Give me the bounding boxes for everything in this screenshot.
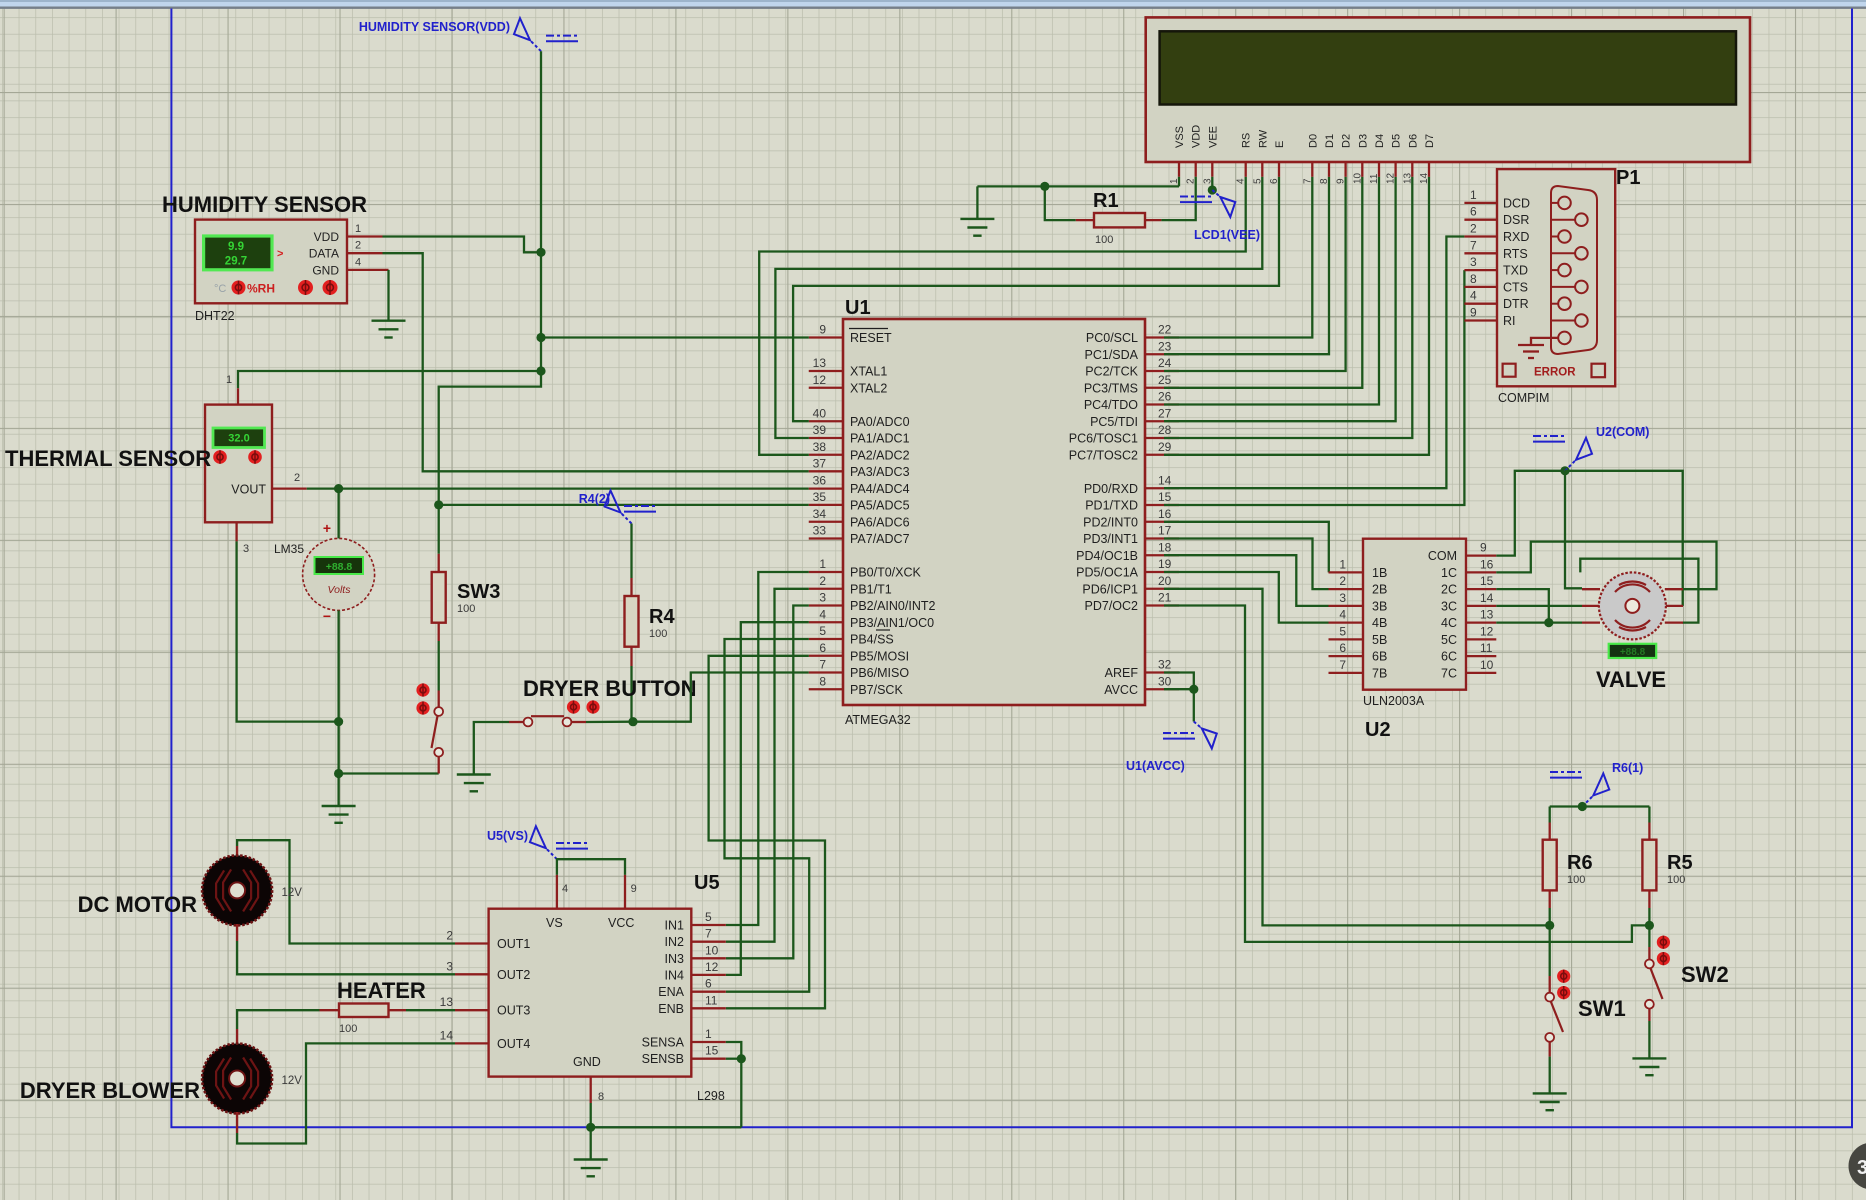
U5 right pin names: [642, 919, 685, 1067]
svg-text:12: 12: [1386, 172, 1397, 184]
wire AREF to AVCC node: [1164, 673, 1194, 690]
DHT22 pin stub DATA: [347, 252, 383, 254]
wire U2 2C jog: [1496, 589, 1549, 623]
svg-text:VCC: VCC: [608, 916, 634, 930]
wire PA5 row: [439, 504, 809, 506]
wire R5 top: [1648, 807, 1650, 823]
svg-text:R5: R5: [1667, 852, 1693, 874]
svg-text:100: 100: [339, 1023, 357, 1035]
U2 right pin numbers: [1480, 541, 1494, 672]
svg-text:18: 18: [1158, 540, 1172, 554]
button knob 1: [567, 700, 580, 713]
button knob 2: [586, 700, 599, 713]
R4 top stub: [630, 578, 632, 596]
U1 right pin numbers: [1158, 323, 1172, 689]
svg-text:6: 6: [705, 977, 712, 991]
svg-text:15: 15: [1158, 490, 1172, 504]
svg-text:8: 8: [598, 1091, 604, 1103]
svg-text:7: 7: [819, 658, 826, 672]
resistor SW3: [432, 572, 446, 623]
button left contact: [524, 718, 533, 727]
svg-text:9: 9: [631, 883, 637, 895]
junction SENSA/SENSB: [737, 1054, 746, 1063]
wire PB2 to IN3: [726, 606, 809, 959]
wire SW2 top: [1648, 925, 1650, 947]
wire SENSA/SENSB to gnd rail: [726, 1042, 742, 1059]
svg-text:XTAL2: XTAL2: [850, 381, 887, 395]
svg-text:PA0/ADC0: PA0/ADC0: [850, 415, 910, 429]
wire SW1 top: [1549, 925, 1551, 976]
button left stub: [509, 721, 524, 723]
wire LCD VSS rail: [1178, 177, 1180, 187]
R4 bottom stub: [630, 647, 632, 666]
svg-text:ENB: ENB: [658, 1002, 684, 1016]
SW1 knob up: [1557, 970, 1570, 983]
svg-text:OUT2: OUT2: [497, 968, 530, 982]
svg-text:23: 23: [1158, 339, 1172, 353]
wire heater to blower top: [237, 1010, 319, 1029]
svg-text:CTS: CTS: [1503, 280, 1528, 294]
window top edge band: [0, 0, 1866, 7]
svg-text:22: 22: [1158, 323, 1172, 337]
junction U2(COM) flag: [1560, 466, 1569, 475]
DC motor bottom stub: [236, 924, 238, 941]
svg-text:IN3: IN3: [665, 952, 685, 966]
svg-text:U2(COM): U2(COM): [1596, 425, 1649, 439]
DHT22 pin stub VDD: [347, 235, 383, 237]
svg-text:4B: 4B: [1372, 616, 1387, 630]
U5 left pin stubs: [455, 944, 489, 1044]
SW3 switch top stub: [438, 691, 440, 708]
junction R5/SW2/PD7: [1645, 921, 1654, 930]
svg-text:VALVE: VALVE: [1596, 667, 1666, 692]
wire R4 bottom: [630, 666, 632, 722]
power flag U1(AVCC): [1163, 722, 1217, 749]
wire U1 PC3 to LCD D3: [1164, 177, 1362, 388]
svg-text:PB7/SCK: PB7/SCK: [850, 683, 903, 697]
U2 left pin numbers: [1339, 557, 1346, 672]
svg-text:PD7/OC2: PD7/OC2: [1085, 599, 1139, 613]
svg-text:DTR: DTR: [1503, 297, 1529, 311]
R1 left stub: [1076, 219, 1094, 221]
svg-text:1: 1: [705, 1027, 712, 1041]
svg-text:−: −: [323, 608, 331, 624]
U5 VS stub: [556, 875, 558, 909]
wire R1 right to LCD VDD: [1161, 177, 1195, 220]
power flag U5(VS): [530, 826, 588, 859]
svg-text:29: 29: [1158, 440, 1172, 454]
junction VEE flag: [1208, 185, 1217, 194]
svg-text:PC7/TOSC2: PC7/TOSC2: [1069, 448, 1138, 462]
SW1 knob down: [1557, 986, 1570, 999]
svg-text:13: 13: [1402, 172, 1413, 184]
svg-text:37: 37: [813, 456, 827, 470]
U5 right pin stubs: [691, 925, 726, 1059]
SW3 switch knob down: [416, 701, 429, 714]
wire gnd rail to SW3 bottom: [339, 772, 439, 774]
wire PB0 to IN1: [726, 572, 809, 925]
svg-text:38: 38: [813, 440, 827, 454]
U5 left pin numbers: [440, 929, 454, 1043]
thermal knob 1: [213, 450, 227, 464]
svg-text:17: 17: [1158, 524, 1172, 538]
U5 GND stub: [590, 1077, 592, 1103]
SW2 top stub: [1648, 947, 1650, 959]
wire LCD RW to PA1: [775, 177, 1262, 438]
svg-text:SW3: SW3: [457, 581, 500, 603]
SW3 bottom stub: [438, 623, 440, 641]
svg-text:PA2/ADC2: PA2/ADC2: [850, 448, 910, 462]
svg-text:9.9: 9.9: [228, 241, 244, 253]
svg-text:8: 8: [819, 674, 826, 688]
svg-text:33: 33: [813, 524, 827, 538]
SW1 top stub: [1549, 976, 1551, 993]
svg-text:IN2: IN2: [665, 935, 685, 949]
svg-text:14: 14: [1480, 591, 1494, 605]
wire AVCC to flag: [1193, 689, 1195, 721]
svg-text:39: 39: [813, 423, 827, 437]
svg-text:40: 40: [813, 406, 827, 420]
svg-text:12V: 12V: [282, 1075, 303, 1087]
svg-text:THERMAL SENSOR: THERMAL SENSOR: [5, 446, 211, 471]
svg-text:D2: D2: [1341, 134, 1353, 148]
junction VOUT / voltmeter: [334, 484, 343, 493]
wire DC motor bottom to OUT2: [237, 941, 455, 974]
svg-text:SW1: SW1: [1578, 996, 1626, 1021]
svg-text:35: 35: [813, 490, 827, 504]
svg-text:3C: 3C: [1441, 599, 1457, 613]
R1 right stub: [1145, 219, 1161, 221]
P1 D-sub pin circles: [1551, 197, 1588, 345]
SW2 knob down: [1657, 952, 1670, 965]
junction gnd rail: [334, 769, 343, 778]
svg-text:VOUT: VOUT: [231, 483, 266, 497]
svg-text:13: 13: [1480, 608, 1494, 622]
wire voltmeter bottom: [337, 610, 339, 773]
svg-text:9: 9: [1470, 306, 1477, 320]
wire DHT22 DATA to U1 PA3: [383, 253, 809, 471]
svg-text:10: 10: [1352, 172, 1363, 184]
junction VSS rail / R1: [1040, 182, 1049, 191]
svg-text:34: 34: [813, 507, 827, 521]
svg-text:D4: D4: [1374, 134, 1386, 148]
wire U1 PC6 to LCD D6: [1164, 177, 1412, 438]
svg-text:R6: R6: [1567, 852, 1593, 874]
wire U2 4C to valve left-bottom: [1496, 621, 1582, 623]
R6 bottom stub: [1549, 890, 1551, 908]
microcontroller U1 ATMEGA32: [843, 319, 1145, 705]
DHT22 knob 3: [323, 280, 338, 295]
wire U2 3C to valve left-mid: [1496, 605, 1582, 607]
svg-text:R4: R4: [649, 606, 675, 628]
resistor HEATER: [339, 1004, 389, 1018]
svg-text:3: 3: [1339, 591, 1346, 605]
svg-text:PD2/INT0: PD2/INT0: [1083, 515, 1138, 529]
LCD pin numbers (rotated): [1169, 172, 1430, 184]
SW3 switch lever: [432, 716, 438, 748]
svg-text:VS: VS: [546, 916, 563, 930]
thermal knob 2: [248, 450, 262, 464]
SW1 lever: [1551, 1002, 1563, 1033]
junction VDD trunk / RESET: [536, 333, 545, 342]
svg-text:COM: COM: [1428, 549, 1457, 563]
SW1 bottom contact: [1545, 1033, 1554, 1042]
svg-text:3: 3: [243, 543, 249, 555]
SW2 knob up: [1657, 936, 1670, 949]
svg-text:PD6/ICP1: PD6/ICP1: [1082, 582, 1138, 596]
U1 left pin numbers: [813, 323, 827, 689]
wire U2 1C over valve to right-top: [1496, 542, 1716, 590]
motor DC MOTOR: [202, 855, 272, 925]
svg-text:PB1/T1: PB1/T1: [850, 582, 892, 596]
svg-text:U5: U5: [694, 872, 720, 894]
svg-text:RESET: RESET: [850, 331, 892, 345]
svg-text:2: 2: [1470, 222, 1477, 236]
U1 PB4/SS overline: [876, 629, 890, 631]
junction R6(1) flag: [1578, 802, 1587, 811]
wire PD5 to U2 4B: [1164, 572, 1329, 623]
SW3 switch top contact: [434, 707, 443, 716]
svg-text:PD0/RXD: PD0/RXD: [1084, 482, 1138, 496]
ground (SW2): [1632, 1058, 1666, 1075]
wire R5 bottom: [1648, 908, 1650, 925]
svg-text:RTS: RTS: [1503, 247, 1528, 261]
wire PB1 to IN2: [726, 589, 809, 942]
svg-text:PD3/INT1: PD3/INT1: [1083, 532, 1138, 546]
svg-text:PA3/ADC3: PA3/ADC3: [850, 465, 910, 479]
wire R6 bottom: [1549, 908, 1551, 925]
svg-text:DHT22: DHT22: [195, 309, 235, 323]
ground (U5 GND): [574, 1160, 608, 1177]
svg-text:E: E: [1274, 141, 1286, 148]
svg-text:P1: P1: [1616, 167, 1640, 189]
wire DHT22 GND down: [387, 270, 389, 321]
svg-text:5: 5: [819, 624, 826, 638]
svg-text:12: 12: [813, 373, 827, 387]
svg-text:32: 32: [1158, 658, 1172, 672]
svg-text:28: 28: [1158, 423, 1172, 437]
svg-text:D0: D0: [1307, 134, 1319, 148]
svg-text:12V: 12V: [282, 887, 303, 899]
svg-text:PC3/TMS: PC3/TMS: [1084, 381, 1138, 395]
junction R6/SW1/PD6: [1545, 921, 1554, 930]
svg-text:2: 2: [355, 240, 361, 252]
svg-text:15: 15: [705, 1044, 719, 1058]
svg-text:1: 1: [1339, 557, 1346, 571]
DHT22 display: [204, 236, 272, 270]
thermal pin stub 3: [235, 522, 237, 541]
svg-text:SENSB: SENSB: [642, 1052, 684, 1066]
svg-text:PA5/ADC5: PA5/ADC5: [850, 498, 910, 512]
svg-text:PD1/TXD: PD1/TXD: [1085, 499, 1138, 513]
svg-text:4: 4: [1339, 608, 1346, 622]
wire R6/R5 top rail: [1550, 805, 1650, 807]
svg-text:SENSA: SENSA: [642, 1036, 685, 1050]
svg-text:PB0/T0/XCK: PB0/T0/XCK: [850, 566, 922, 580]
wire U1 PC2 to LCD D2: [1164, 177, 1346, 371]
svg-text:1C: 1C: [1441, 566, 1457, 580]
wire junction to PB6: [633, 673, 809, 722]
svg-text:1B: 1B: [1372, 566, 1387, 580]
svg-text:7: 7: [1339, 658, 1346, 672]
U1 right pin names: [1069, 331, 1139, 697]
wire thermal VOUT to PA4: [307, 487, 809, 489]
svg-text:36: 36: [813, 474, 827, 488]
svg-text:ATMEGA32: ATMEGA32: [845, 713, 911, 727]
motor VALVE: [1599, 572, 1666, 639]
ground (DHT22): [372, 321, 406, 338]
svg-text:VEE: VEE: [1207, 126, 1219, 148]
SW2 bottom stub: [1648, 1009, 1650, 1021]
SW3 top stub: [438, 554, 440, 572]
SW2 bottom contact: [1645, 1000, 1654, 1009]
valve display: [1609, 644, 1657, 658]
blower bottom stub: [236, 1112, 238, 1133]
ground (VSS rail): [960, 219, 994, 236]
svg-text:OUT3: OUT3: [497, 1004, 530, 1018]
button right stub: [571, 721, 586, 723]
wire R4 top: [630, 524, 632, 579]
driver U5 L298: [489, 909, 692, 1077]
wire U1 PC1 to LCD D1: [1164, 177, 1329, 354]
svg-text:6: 6: [1269, 178, 1280, 184]
svg-text:XTAL1: XTAL1: [850, 365, 887, 379]
svg-text:9: 9: [1480, 541, 1487, 555]
P1 ERROR indicator: [1503, 364, 1516, 377]
svg-text:7B: 7B: [1372, 666, 1387, 680]
svg-text:15: 15: [1480, 574, 1494, 588]
svg-text:DC MOTOR: DC MOTOR: [78, 892, 197, 917]
svg-text:12: 12: [1480, 624, 1494, 638]
svg-text:11: 11: [1480, 641, 1493, 655]
svg-text:RW: RW: [1257, 129, 1269, 148]
svg-text:4: 4: [1236, 178, 1247, 184]
svg-text:19: 19: [1158, 557, 1172, 571]
svg-text:R4(2): R4(2): [579, 492, 610, 506]
svg-text:6C: 6C: [1441, 650, 1457, 664]
svg-text:8: 8: [1319, 178, 1330, 184]
svg-text:6: 6: [1339, 641, 1346, 655]
svg-text:COMPIM: COMPIM: [1498, 391, 1549, 405]
wire to ground (U5): [590, 1127, 592, 1159]
driver U2 ULN2003A: [1363, 539, 1466, 690]
svg-text:32.0: 32.0: [228, 433, 249, 445]
svg-text:3: 3: [1857, 1157, 1866, 1179]
DC motor top stub: [236, 846, 238, 857]
SW3 switch bottom stub: [438, 757, 440, 774]
svg-text:+88.8: +88.8: [326, 561, 353, 573]
svg-text:PA6/ADC6: PA6/ADC6: [850, 515, 910, 529]
svg-text:10: 10: [705, 943, 719, 957]
wire U5 GND to rail: [590, 1103, 592, 1127]
wire AVCC stub join: [1164, 688, 1194, 690]
svg-text:5: 5: [1339, 624, 1346, 638]
wire U1 PC0 to LCD D0: [1164, 177, 1312, 338]
svg-text:DATA: DATA: [309, 247, 339, 261]
SW2 top contact: [1645, 960, 1654, 969]
svg-text:°C: °C: [214, 283, 226, 295]
svg-text:RI: RI: [1503, 314, 1516, 328]
svg-text:D3: D3: [1357, 134, 1369, 148]
wire to ground (LM35 rail): [337, 774, 339, 807]
wire valve right-bottom loop: [1580, 559, 1698, 623]
SW3 switch knob up: [416, 683, 429, 696]
wire U1 PC4 to LCD D4: [1164, 177, 1379, 405]
wire button left to ground: [474, 722, 509, 775]
svg-text:IN4: IN4: [665, 968, 685, 982]
wire VS/VCC bridge: [557, 859, 625, 875]
wire COM dot down to valve left-top: [1565, 471, 1582, 589]
ground (LM35 rail): [322, 806, 356, 823]
svg-text:3: 3: [446, 959, 453, 973]
svg-text:PC4/TDO: PC4/TDO: [1084, 398, 1138, 412]
svg-text:D5: D5: [1391, 134, 1403, 148]
svg-text:100: 100: [649, 628, 667, 640]
svg-text:PB2/AIN0/INT2: PB2/AIN0/INT2: [850, 599, 935, 613]
svg-text:+: +: [323, 520, 331, 536]
wire SW3 to switch: [438, 641, 440, 691]
resistor R5: [1642, 840, 1656, 891]
svg-text:VDD: VDD: [314, 230, 340, 244]
wire button to junction: [586, 721, 633, 724]
junction R4 / button / PB6: [628, 717, 637, 726]
svg-text:2C: 2C: [1441, 583, 1457, 597]
svg-text:3: 3: [1470, 255, 1477, 269]
wire PD4 to U2 3B: [1164, 555, 1329, 606]
svg-text:5C: 5C: [1441, 633, 1457, 647]
svg-text:AREF: AREF: [1105, 666, 1139, 680]
svg-text:DRYER BUTTON: DRYER BUTTON: [523, 676, 697, 701]
svg-text:11: 11: [705, 993, 718, 1007]
wire OUT1 to DC motor top: [237, 840, 455, 943]
junction U5 GND rail: [586, 1123, 595, 1132]
SW1 bottom stub: [1549, 1042, 1551, 1057]
wire SENS to rail: [740, 1059, 742, 1128]
valve pin stubs: [1582, 589, 1683, 622]
svg-text:27: 27: [1158, 406, 1172, 420]
wire blower bottom to OUT4: [237, 1043, 455, 1143]
svg-text:11: 11: [1369, 173, 1380, 184]
connector P1 COMPIM: [1497, 169, 1615, 386]
wire R1 left: [1045, 186, 1076, 220]
svg-text:9: 9: [819, 323, 826, 337]
svg-text:2: 2: [819, 574, 826, 588]
svg-text:14: 14: [1419, 172, 1430, 184]
svg-text:4C: 4C: [1441, 616, 1457, 630]
svg-text:10: 10: [1480, 658, 1494, 672]
svg-text:6B: 6B: [1372, 650, 1387, 664]
svg-text:1: 1: [819, 557, 826, 571]
SW3 switch bottom contact: [434, 748, 443, 757]
svg-text:1: 1: [355, 223, 361, 235]
svg-text:AVCC: AVCC: [1104, 683, 1138, 697]
svg-text:2: 2: [294, 472, 300, 484]
thermal sensor box (LM35): [205, 405, 272, 523]
junction AREF/AVCC: [1189, 685, 1198, 694]
svg-text:VDD: VDD: [1191, 125, 1203, 148]
svg-text:>: >: [277, 248, 283, 260]
wire PD2 to U2 1B: [1164, 522, 1329, 573]
svg-text:DCD: DCD: [1503, 196, 1530, 210]
svg-text:LCD1(VEE): LCD1(VEE): [1194, 228, 1260, 242]
svg-text:5B: 5B: [1372, 633, 1387, 647]
wire PD0 to P1 RXD: [1164, 237, 1464, 489]
svg-text:Volts: Volts: [328, 584, 352, 596]
wire trunk to SW3: [438, 505, 440, 554]
svg-text:PB3/AIN1/OC0: PB3/AIN1/OC0: [850, 616, 934, 630]
svg-text:2: 2: [446, 929, 453, 943]
wire U2 COM riser: [1496, 471, 1565, 556]
